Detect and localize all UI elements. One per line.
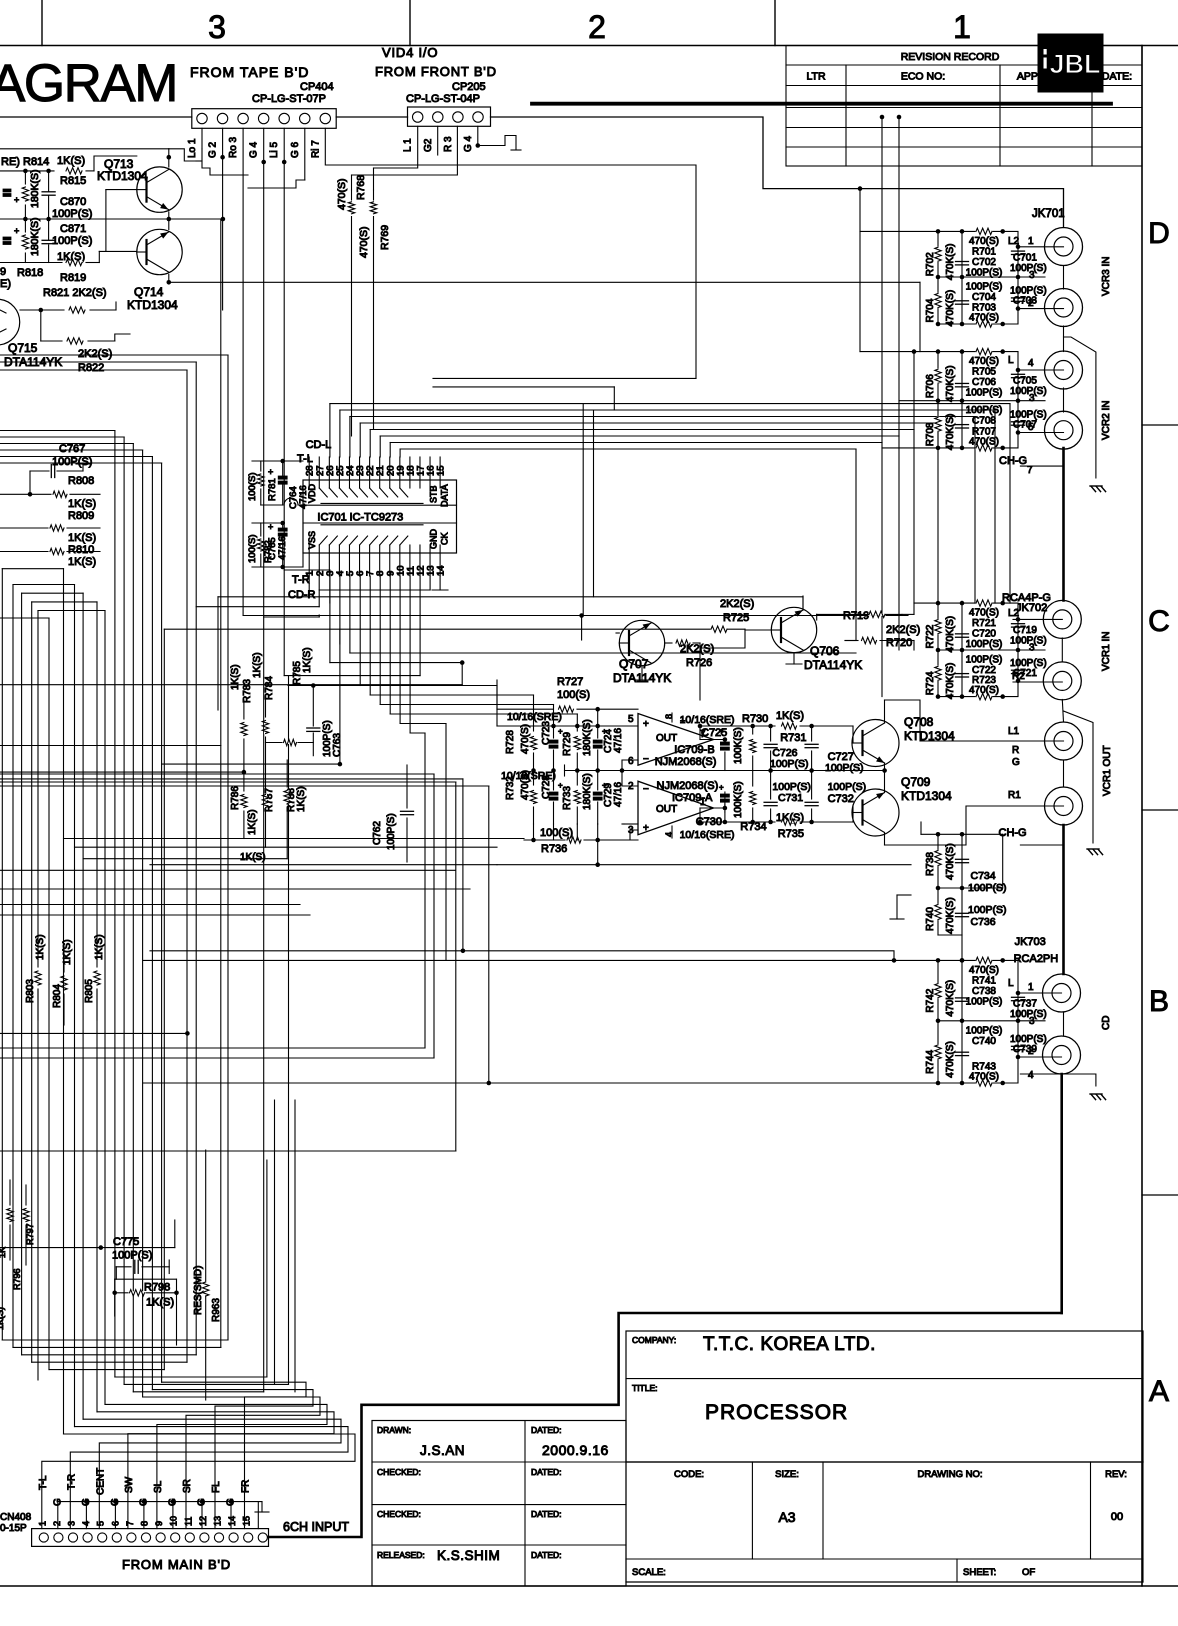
svg-text:1K(S): 1K(S)	[0, 1307, 5, 1330]
resistor R701 470 top rail	[969, 228, 999, 257]
wire thick bus top	[532, 102, 1111, 106]
svg-text:Q714: Q714	[134, 285, 164, 299]
svg-text:470K(S): 470K(S)	[945, 616, 956, 653]
resistor R782	[247, 523, 274, 567]
transistor Q715	[0, 299, 62, 369]
svg-text:CK: CK	[440, 532, 450, 545]
svg-text:E): E)	[0, 278, 11, 290]
svg-text:R819: R819	[60, 272, 86, 284]
svg-text:2000.9.16: 2000.9.16	[542, 1442, 609, 1458]
svg-text:10/16(SRE): 10/16(SRE)	[680, 829, 735, 841]
IC709-A labels	[657, 780, 735, 841]
resistor R724 470K vertical	[925, 663, 956, 700]
svg-text:VID4 I/O: VID4 I/O	[382, 45, 438, 60]
svg-text:R736: R736	[541, 843, 567, 855]
schematic area thick boundary	[269, 1313, 1062, 1537]
svg-text:IC-TC9273: IC-TC9273	[350, 512, 404, 524]
resistor R738	[925, 843, 956, 880]
svg-text:VCR1 OUT: VCR1 OUT	[1102, 745, 1113, 796]
svg-text:K.S.SHIM: K.S.SHIM	[437, 1548, 500, 1563]
resistor R721 470 top rail	[969, 600, 999, 629]
svg-text:G 4: G 4	[249, 141, 260, 158]
svg-text:R805: R805	[84, 979, 95, 1003]
svg-text:R741: R741	[972, 975, 996, 986]
svg-text:15: 15	[242, 1516, 252, 1526]
svg-text:R818: R818	[17, 267, 43, 279]
svg-text:JK703: JK703	[1015, 936, 1046, 948]
svg-text:DRAWING NO:: DRAWING NO:	[917, 1469, 982, 1480]
svg-text:JK702: JK702	[1016, 602, 1047, 614]
svg-text:470K(S): 470K(S)	[945, 414, 956, 451]
svg-text:KTD1304: KTD1304	[97, 169, 148, 183]
svg-text:1K(S): 1K(S)	[68, 532, 96, 544]
svg-text:R704: R704	[925, 298, 936, 322]
svg-text:RCA2PH: RCA2PH	[1014, 953, 1059, 965]
svg-text:3: 3	[67, 1521, 77, 1526]
svg-text:IC709-A: IC709-A	[672, 792, 713, 804]
svg-text:R796: R796	[12, 1268, 22, 1290]
jack VCR2 upper	[1008, 351, 1083, 389]
svg-text:OUT: OUT	[656, 733, 677, 744]
svg-text:+: +	[643, 719, 649, 730]
R768 R769 top connections	[352, 168, 374, 190]
svg-text:DATED:: DATED:	[531, 1509, 562, 1519]
svg-text:1K(S): 1K(S)	[252, 652, 263, 678]
svg-text:+: +	[719, 727, 724, 736]
rc block feed wires	[845, 231, 938, 650]
capacitor C871	[42, 219, 92, 263]
svg-text:IC701: IC701	[317, 512, 346, 524]
svg-text:DRAWN:: DRAWN:	[377, 1425, 411, 1435]
svg-text:DATED:: DATED:	[531, 1550, 562, 1560]
svg-text:180K(S): 180K(S)	[582, 719, 593, 756]
jack VCR1IN upper	[1008, 600, 1081, 638]
capacitor C706	[956, 377, 1003, 399]
svg-text:TITLE:: TITLE:	[632, 1383, 658, 1393]
svg-text:CENT: CENT	[95, 1468, 106, 1495]
capacitor cluster right of opamps upper	[719, 724, 756, 771]
svg-text:100P(S): 100P(S)	[112, 1250, 152, 1262]
svg-text:PROCESSOR: PROCESSOR	[705, 1401, 848, 1424]
svg-text:R744: R744	[925, 1050, 936, 1074]
svg-text:180K(S): 180K(S)	[582, 773, 593, 810]
svg-text:R797: R797	[25, 1223, 35, 1245]
wire verticals dropping to VCR1 block	[856, 404, 1010, 697]
transistor Q709	[852, 775, 952, 836]
svg-text:470(S): 470(S)	[969, 1072, 999, 1083]
svg-text:C736: C736	[971, 916, 996, 928]
svg-text:R721: R721	[972, 618, 996, 629]
svg-text:C737: C737	[1013, 999, 1037, 1010]
resistor R708 470K vertical	[925, 414, 956, 451]
resistor R798	[112, 1279, 178, 1345]
resistor R736	[524, 824, 630, 855]
resistor R741 470 top rail	[969, 957, 999, 986]
wire nest verticals group C D	[0, 219, 228, 1362]
Q713 collector emitter wires	[167, 149, 172, 219]
svg-text:8: 8	[140, 1521, 150, 1526]
resistor R809	[0, 510, 100, 544]
svg-text:100(S): 100(S)	[247, 534, 258, 563]
resistor R726	[665, 640, 715, 669]
svg-text:C732: C732	[828, 793, 854, 805]
resistor R722 470K vertical	[925, 616, 956, 653]
svg-text:R733: R733	[562, 786, 573, 810]
svg-text:R731: R731	[780, 732, 806, 744]
svg-text:FROM TAPE B'D: FROM TAPE B'D	[190, 64, 309, 80]
jack CD upper	[1008, 974, 1081, 1012]
rc block JK703 rails	[936, 958, 1045, 1085]
svg-text:1K(S): 1K(S)	[776, 710, 804, 722]
svg-text:470(S): 470(S)	[969, 236, 999, 247]
capacitor C707 right	[1003, 401, 1047, 448]
resistor R769	[358, 190, 391, 430]
svg-text:14: 14	[436, 565, 447, 576]
svg-text:SL: SL	[153, 1480, 164, 1493]
svg-text:D: D	[1148, 217, 1170, 250]
svg-text:FROM MAIN B'D: FROM MAIN B'D	[122, 1557, 231, 1572]
long wire 864	[150, 838, 911, 867]
svg-text:SR: SR	[182, 1479, 193, 1493]
svg-text:100P(S): 100P(S)	[386, 813, 397, 850]
CD housing ground	[1020, 1074, 1096, 1086]
svg-text:C775: C775	[113, 1236, 139, 1248]
transistor Q714	[127, 229, 182, 312]
svg-text:KTD1304: KTD1304	[127, 298, 178, 312]
capacitor C705 right	[1003, 352, 1047, 404]
svg-text:47/16: 47/16	[613, 728, 624, 753]
svg-text:100P(S): 100P(S)	[966, 996, 1003, 1007]
svg-text:DATED:: DATED:	[531, 1425, 562, 1435]
svg-text:2: 2	[52, 1521, 62, 1526]
svg-text:DATA: DATA	[440, 484, 450, 507]
resistor R706 470K vertical	[925, 365, 956, 402]
svg-text:SCALE:: SCALE:	[632, 1567, 666, 1578]
capacitor C723 network row upper	[497, 680, 638, 771]
svg-text:B: B	[1149, 985, 1169, 1018]
svg-text:C762: C762	[372, 821, 383, 845]
svg-text:470K(S): 470K(S)	[945, 365, 956, 402]
svg-text:2K2(S): 2K2(S)	[720, 598, 754, 610]
svg-text:JBL: JBL	[1049, 49, 1100, 79]
svg-text:R768: R768	[355, 175, 367, 200]
svg-text:1: 1	[1028, 982, 1034, 993]
svg-text:FROM FRONT B'D: FROM FRONT B'D	[375, 64, 497, 79]
IC701 pin stubs and numbers bottom	[305, 545, 447, 576]
wire mid 219	[0, 217, 225, 222]
svg-text:1: 1	[953, 9, 971, 45]
svg-text:R784: R784	[264, 676, 275, 700]
svg-text:+: +	[643, 823, 649, 834]
svg-text:C763: C763	[332, 733, 343, 757]
pulse symbol near CP205	[476, 136, 522, 151]
capacitor C719 right	[1003, 603, 1047, 653]
svg-text:COMPANY:: COMPANY:	[632, 1335, 676, 1345]
svg-text:CP205: CP205	[452, 81, 486, 93]
svg-text:CD: CD	[1101, 1016, 1112, 1030]
rc block JK702 rails	[936, 601, 1045, 699]
svg-text:100P(S): 100P(S)	[966, 388, 1003, 399]
svg-text:100P(S): 100P(S)	[52, 456, 92, 468]
svg-text:470K(S): 470K(S)	[945, 290, 956, 327]
svg-text:1K(S): 1K(S)	[94, 934, 105, 960]
svg-text:14: 14	[227, 1516, 237, 1526]
svg-text:R808: R808	[68, 475, 94, 487]
transistor Q708	[852, 715, 955, 767]
CP205 pin labels	[403, 135, 474, 152]
capacitor C767	[30, 443, 92, 494]
svg-text:2K2(S): 2K2(S)	[78, 348, 112, 360]
svg-text:1K: 1K	[0, 1247, 7, 1258]
capacitor C739 right	[1003, 1021, 1047, 1083]
svg-text:R781: R781	[267, 478, 278, 501]
IC701 pin14 ground	[432, 576, 448, 590]
resistor R707 470 bottom rail	[969, 426, 999, 451]
svg-text:+: +	[719, 783, 724, 792]
resistor R720	[845, 624, 920, 649]
svg-text:6: 6	[628, 756, 634, 767]
svg-text:L: L	[1008, 355, 1014, 366]
svg-text:100P(S): 100P(S)	[966, 405, 1003, 416]
svg-text:5: 5	[628, 714, 634, 725]
svg-text:100K(S): 100K(S)	[733, 781, 744, 818]
jack VCR3 upper	[1008, 228, 1083, 266]
svg-text:100(S): 100(S)	[557, 689, 590, 701]
svg-text:R809: R809	[68, 510, 94, 522]
jack VCR1OUT lower	[1008, 787, 1083, 825]
svg-text:C704: C704	[972, 292, 996, 303]
svg-text:R822: R822	[78, 362, 104, 374]
node CH-G VCR2	[999, 455, 1064, 476]
label VID4 I/O FROM FRONT B'D	[375, 45, 497, 105]
svg-text:10/16(SRE): 10/16(SRE)	[507, 711, 562, 723]
svg-text:R725: R725	[723, 612, 749, 624]
svg-text:1K(S): 1K(S)	[240, 852, 266, 863]
svg-text:C739: C739	[1013, 1044, 1037, 1055]
svg-text:2K2(S): 2K2(S)	[886, 624, 920, 636]
svg-text:470K(S): 470K(S)	[945, 244, 956, 281]
op-amp A input wires	[622, 771, 638, 841]
capacitor C704	[956, 282, 1003, 305]
svg-text:4: 4	[1028, 358, 1034, 369]
svg-text:1K(S): 1K(S)	[247, 809, 258, 835]
svg-text:R769: R769	[379, 225, 391, 250]
svg-text:C708: C708	[972, 416, 996, 427]
IC701 switch symbols	[319, 488, 423, 545]
ground VCR2	[1090, 486, 1106, 492]
svg-text:CP-LG-ST-04P: CP-LG-ST-04P	[406, 93, 480, 105]
svg-text:ECO NO:: ECO NO:	[901, 71, 945, 83]
svg-text:Lo 1: Lo 1	[187, 138, 198, 158]
capacitor C764	[268, 461, 309, 509]
svg-text:CP-LG-ST-07P: CP-LG-ST-07P	[252, 93, 326, 105]
svg-text:R730: R730	[742, 713, 768, 725]
capacitor C732	[805, 771, 866, 823]
resistor R734 R735 lower rail	[698, 808, 853, 840]
capacitor C740	[956, 1025, 1003, 1055]
svg-text:R783: R783	[242, 679, 253, 703]
svg-text:L1: L1	[1008, 726, 1020, 737]
resistor R808	[0, 475, 100, 510]
svg-text:1K(S): 1K(S)	[230, 664, 241, 690]
svg-text:STB: STB	[429, 485, 439, 503]
svg-text:CN408: CN408	[0, 1512, 32, 1523]
resistor R819	[0, 251, 99, 290]
svg-text:15: 15	[436, 465, 447, 476]
CP205 pin wires	[352, 126, 478, 175]
capacitor C731	[764, 771, 811, 823]
resistor R703 470 bottom rail	[969, 303, 999, 328]
svg-text:0-15P: 0-15P	[0, 1523, 27, 1534]
svg-text:C721: C721	[1013, 668, 1037, 679]
capacitor C775	[112, 1236, 169, 1279]
svg-text:47/16: 47/16	[277, 536, 288, 560]
resistors R796 R797	[0, 1180, 35, 1330]
resistor 180K upper	[22, 169, 41, 219]
ground stub near R740	[890, 895, 911, 919]
svg-text:C719: C719	[1013, 625, 1037, 636]
svg-text:R722: R722	[925, 624, 936, 648]
JBL logo	[1038, 34, 1103, 92]
capacitor C721 right	[1003, 650, 1047, 697]
svg-text:10/16(SRE): 10/16(SRE)	[680, 714, 735, 726]
svg-text:100P(S): 100P(S)	[52, 235, 92, 247]
svg-text:R706: R706	[925, 374, 936, 398]
wire nest verticals group A	[2, 569, 105, 1434]
resistor R963 RES(SMD)	[193, 1150, 222, 1400]
svg-text:Q706: Q706	[810, 644, 840, 658]
svg-text:L: L	[1008, 978, 1014, 989]
svg-text:REVISION RECORD: REVISION RECORD	[901, 51, 1000, 63]
capacitor C702	[956, 257, 1003, 279]
svg-text:Q707: Q707	[619, 657, 649, 671]
revision record table	[786, 46, 1142, 167]
svg-text:SHEET:: SHEET:	[963, 1567, 996, 1578]
svg-text:C703: C703	[1013, 296, 1037, 307]
wire staircase CN408 paths	[42, 1382, 355, 1528]
Q714 wires	[167, 219, 921, 352]
svg-text:R720: R720	[886, 637, 912, 649]
jack CD lower	[1020, 1036, 1080, 1081]
svg-text:+: +	[14, 226, 19, 236]
svg-text:10: 10	[169, 1516, 179, 1526]
svg-text:FR: FR	[241, 1480, 252, 1493]
svg-text:RE) R814: RE) R814	[1, 156, 49, 168]
svg-text:R742: R742	[925, 988, 936, 1012]
svg-text:KTD1304: KTD1304	[901, 789, 952, 803]
svg-text:AGRAM: AGRAM	[0, 54, 177, 113]
wire nest bottom rungs	[2, 1340, 288, 1392]
svg-text:470K(S): 470K(S)	[945, 1041, 956, 1078]
svg-text:3: 3	[1029, 642, 1035, 653]
svg-text:CD-L: CD-L	[306, 439, 332, 451]
svg-text:C731: C731	[778, 792, 803, 804]
wire verticals left nest additions	[164, 597, 288, 1385]
svg-text:VCR1 IN: VCR1 IN	[1101, 632, 1112, 671]
wire verticals upper right	[433, 115, 901, 616]
capacitor C736	[956, 904, 1007, 928]
svg-text:100P(S): 100P(S)	[966, 655, 1003, 666]
IC709-B labels	[655, 714, 735, 768]
svg-text:T-L: T-L	[297, 453, 313, 465]
connector CN408	[32, 1529, 269, 1547]
svg-text:1K(S): 1K(S)	[302, 647, 313, 673]
wire from Lo pin down	[196, 128, 202, 161]
svg-text:R740: R740	[925, 907, 936, 931]
resistor R702 470K vertical	[925, 244, 956, 281]
resistor R743 470 bottom rail	[969, 1062, 999, 1087]
svg-text:+: +	[14, 195, 19, 205]
wire VID to JK701	[0, 117, 1064, 228]
svg-text:A3: A3	[778, 1509, 795, 1525]
resistor R719	[817, 610, 902, 622]
svg-text:DTA114YK: DTA114YK	[804, 658, 862, 672]
svg-text:100P(S): 100P(S)	[825, 762, 864, 774]
node junctions under CP404	[202, 149, 248, 175]
capacitor C737 right	[1003, 960, 1047, 1027]
svg-text:9: 9	[0, 266, 6, 278]
long wire 1083 CD-R	[143, 1082, 938, 1084]
svg-text:Ro 3: Ro 3	[228, 136, 239, 158]
wire links CP404 to IC701 region	[264, 570, 430, 617]
svg-text:12: 12	[198, 1516, 208, 1526]
IC701 IC-TC9273 body	[303, 480, 457, 553]
capacitor C734	[956, 859, 1007, 894]
capacitor C870	[42, 171, 92, 220]
svg-text:R735: R735	[778, 828, 804, 840]
rc block JK701 rails	[936, 229, 1045, 326]
wire nest verticals extra	[275, 1100, 296, 1392]
svg-text:REV:: REV:	[1105, 1469, 1127, 1480]
svg-text:00: 00	[1111, 1511, 1123, 1523]
svg-text:CH-G: CH-G	[999, 455, 1027, 467]
svg-text:R810: R810	[68, 544, 94, 556]
svg-text:100K(S): 100K(S)	[733, 727, 744, 764]
capacitor C738	[956, 986, 1003, 1008]
svg-text:G 4: G 4	[463, 135, 474, 152]
svg-text:R724: R724	[925, 671, 936, 695]
node CH-G VCR1OUT	[999, 827, 1064, 845]
svg-text:A: A	[1149, 1375, 1169, 1408]
capacitor C722	[956, 655, 1003, 678]
capacitor C708	[956, 405, 1003, 428]
resistor R821	[20, 287, 116, 313]
capacitor C728 network row lower	[505, 770, 624, 824]
svg-text:SW: SW	[124, 1476, 135, 1493]
capacitor cluster lower	[719, 771, 756, 823]
svg-text:9: 9	[154, 1521, 164, 1526]
svg-text:C707: C707	[1013, 420, 1037, 431]
svg-text:470(S): 470(S)	[520, 724, 531, 754]
svg-text:R815: R815	[60, 175, 86, 187]
resistor R727	[497, 676, 638, 712]
svg-text:−: −	[643, 784, 649, 795]
transistor Q707	[613, 620, 671, 685]
CN408 signal labels	[38, 1468, 252, 1506]
svg-text:R729: R729	[562, 732, 573, 756]
svg-text:CHECKED:: CHECKED:	[377, 1467, 421, 1477]
wire nest top hooks	[0, 569, 105, 618]
resistor R744 470K vertical	[925, 1041, 956, 1078]
svg-text:R798: R798	[144, 1282, 170, 1294]
wire nest verticals group B	[0, 431, 162, 1398]
svg-text:C740: C740	[972, 1036, 996, 1047]
svg-text:R738: R738	[925, 852, 936, 876]
svg-text:3: 3	[1029, 270, 1035, 281]
capacitor C868 polarized	[3, 189, 19, 205]
Q713 Q714 base wires	[99, 190, 137, 263]
svg-text:C: C	[1148, 605, 1170, 638]
